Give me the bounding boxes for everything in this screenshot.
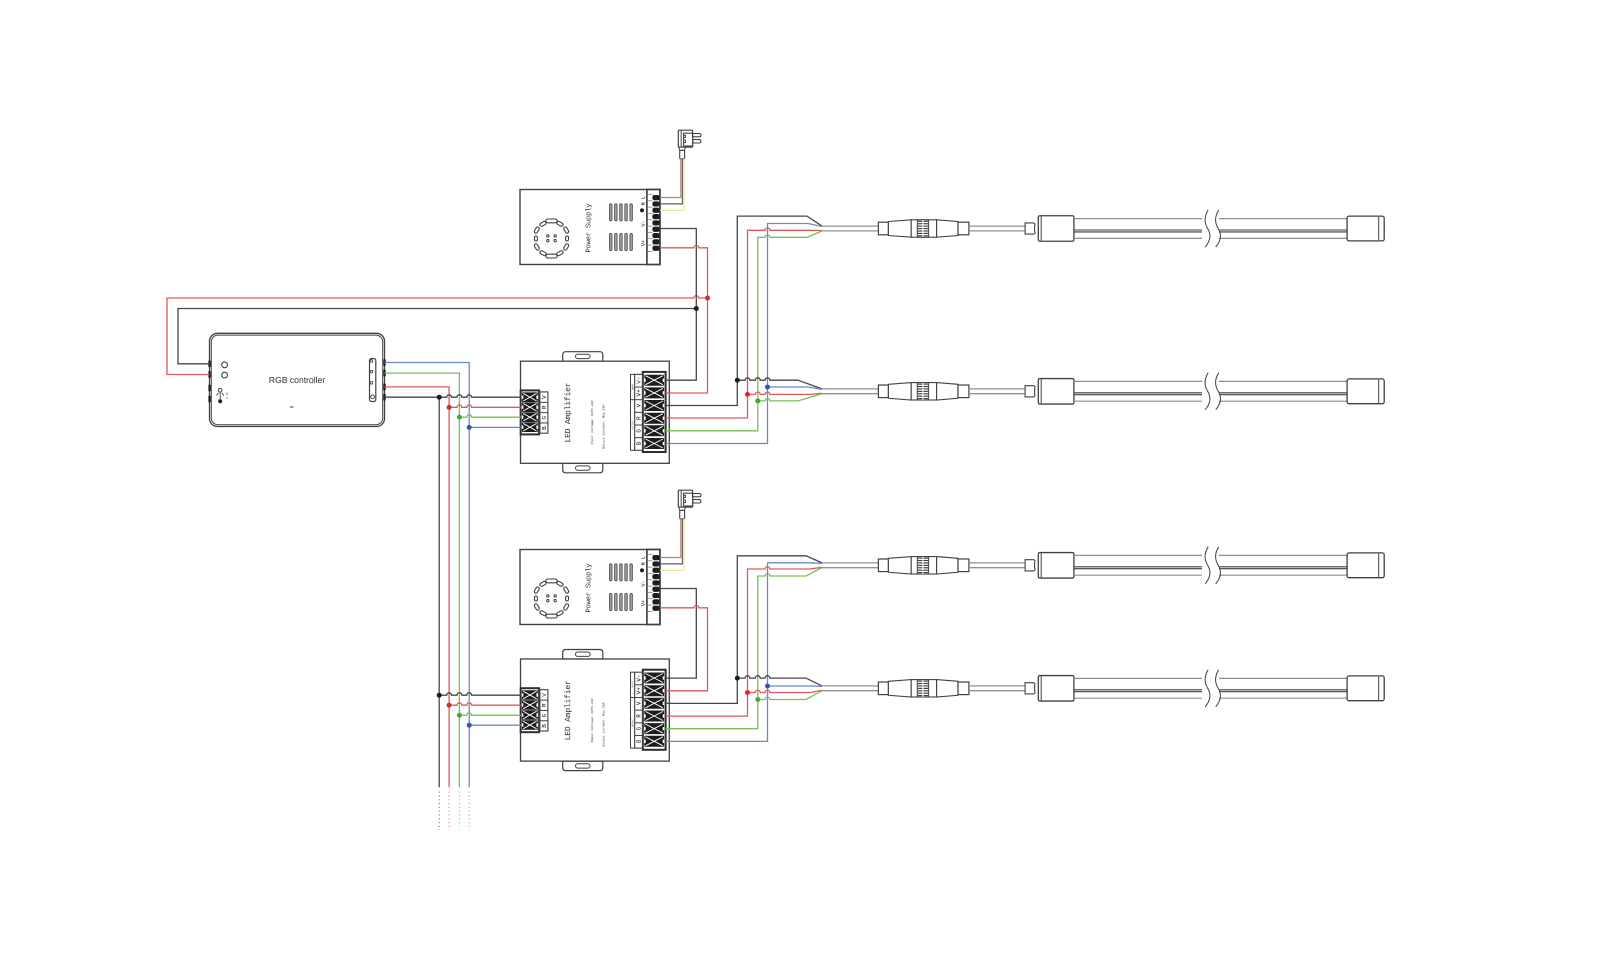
output pin labels V- V+ V R G B [635, 374, 643, 450]
wire controller V output to A1 V [385, 395, 521, 397]
wire plug ground [660, 159, 684, 211]
node junction [735, 378, 740, 383]
wire R to A1 R input [449, 405, 521, 407]
wire blue to strip4 [768, 685, 823, 687]
LED amplifier A2 [521, 650, 670, 771]
node junction [447, 703, 452, 708]
wire red to strip4 [748, 690, 823, 692]
wire PS1 V- to A1 V- [660, 229, 696, 381]
indicator buttons [222, 362, 228, 368]
wire V+ red loop PS1 to controller [167, 296, 708, 375]
input pin labels V R G B [540, 392, 548, 433]
node junction [457, 415, 462, 420]
node junction [437, 395, 442, 400]
junction dots [437, 296, 770, 728]
ground symbol [640, 208, 644, 212]
wire green to strip4 [758, 691, 822, 700]
wire red to strip2 [748, 392, 823, 394]
wire A1 G out to strip1 [666, 231, 822, 431]
strip end cap with cable grip [1025, 223, 1035, 234]
wire A2 B out to strip3 [666, 563, 822, 742]
node junction [765, 385, 770, 390]
wire A2 V out to strip3 [666, 556, 822, 704]
LED amplifier A1 [521, 352, 670, 473]
LED strip 4 [822, 670, 1384, 707]
node junction [755, 697, 760, 702]
node junction [467, 723, 472, 728]
wire PS1 V+ to A1 V+ [660, 245, 708, 393]
label RGB controller [270, 377, 326, 383]
node junction [694, 306, 699, 311]
AC plug [678, 130, 692, 147]
cable to connector [822, 225, 878, 227]
mounting tab bottom [563, 463, 603, 473]
wire plug N [660, 159, 682, 204]
wire plug L [660, 159, 681, 198]
node junction [765, 684, 770, 689]
wire dashed tail [458, 792, 460, 831]
wire V to A2 V input [439, 693, 521, 695]
wire dashed tail [468, 792, 470, 831]
wire PS2 V+ to A2 V+ [660, 605, 708, 690]
wire A2 R out to strip3 [666, 567, 822, 717]
wire black to strip4 [737, 676, 822, 686]
AC/DC terminal strip [647, 190, 660, 265]
label Power Supply [585, 204, 592, 252]
wire A2 G out to strip3 [666, 568, 822, 729]
input terminal block V R G B [521, 390, 539, 434]
node junction [755, 398, 760, 403]
wire blue to strip2 [768, 387, 823, 389]
inline plug connector [878, 222, 888, 235]
wire controller B output vertical [385, 363, 470, 788]
wire controller V output vertical [438, 397, 440, 787]
node junction [745, 690, 750, 695]
power supply case [520, 190, 660, 265]
amplifier case [521, 361, 670, 463]
wire controller R output vertical [385, 387, 450, 787]
output terminal block V- V+ V R G B [643, 372, 666, 452]
wire B to A1 B input [469, 426, 521, 428]
label LED Amplifier [564, 383, 572, 441]
wire G to A2 G input [459, 713, 520, 715]
cable to strip [969, 225, 1025, 227]
power supply PS1 [520, 130, 701, 264]
cooling fan [546, 219, 557, 223]
label 2.4G [226, 392, 228, 399]
RGB controller U1 [208, 333, 385, 426]
LED strip 3 [822, 547, 1384, 584]
output connector [370, 359, 376, 402]
node junction [705, 296, 710, 301]
node junction [467, 425, 472, 430]
controller case [210, 333, 385, 426]
wire green to strip2 [758, 394, 822, 401]
wire dashed tail [438, 792, 440, 831]
mounting tab top [563, 352, 603, 362]
neon flex tube [1074, 218, 1202, 220]
node junction [447, 405, 452, 410]
LED strip 2 [822, 373, 1384, 410]
wire R to A2 R input [449, 703, 521, 705]
node junction [437, 693, 442, 698]
power supply PS2 [520, 490, 701, 624]
label output current [602, 405, 605, 449]
wire B to A2 B input [469, 724, 521, 726]
wire A1 B out to strip1 [666, 224, 822, 444]
wire dashed tail [448, 792, 450, 831]
node junction [735, 676, 740, 681]
2.4G antenna icon [218, 389, 222, 393]
wire A1 R out to strip1 [666, 228, 822, 418]
wire A1 V out to strip1 [666, 216, 822, 405]
wire controller G output vertical [385, 373, 460, 787]
length break marks [1205, 210, 1210, 247]
LED strip 1 [822, 210, 1384, 247]
vent slots [610, 204, 613, 221]
terminal labels L N GND V- V+ [641, 196, 644, 198]
wire black to strip2 [737, 378, 822, 389]
wire V- black loop PS1 to controller [178, 309, 696, 364]
node junction [745, 392, 750, 397]
wire PS2 V- to A2 V- [660, 589, 696, 679]
wire G to A1 G input [459, 415, 520, 417]
strip far end cap [1347, 216, 1384, 241]
node junction [457, 713, 462, 718]
label input voltage [591, 400, 594, 444]
